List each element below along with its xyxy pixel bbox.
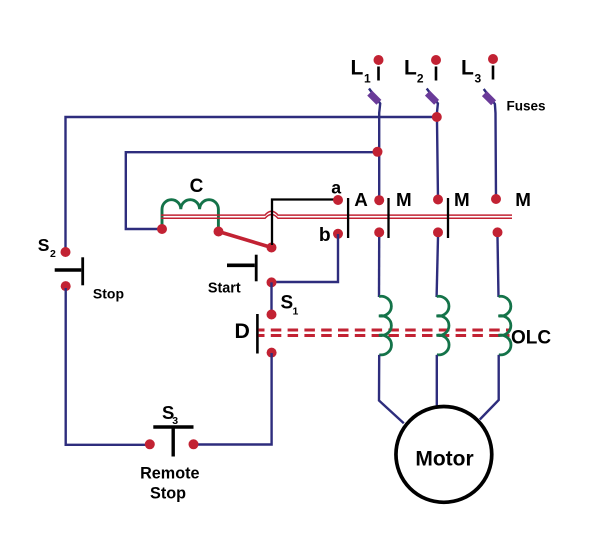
switch S3 left dot [145, 439, 155, 449]
svg-text:Stop: Stop [93, 285, 124, 301]
armature red link [219, 232, 272, 248]
label C [190, 176, 204, 197]
fuse F3 lead [484, 89, 496, 200]
label S3 [162, 402, 178, 427]
svg-text:M: M [396, 189, 412, 210]
wire node b to S1 top [272, 234, 339, 282]
svg-text:S: S [281, 293, 294, 314]
label D [235, 319, 250, 343]
wire from L1 tap to coil C left [126, 152, 378, 229]
label S2 [38, 235, 56, 260]
wire black link from node a [272, 200, 338, 246]
terminal L2 stub [435, 67, 438, 81]
label Fuses [507, 99, 546, 114]
wire S2 bottom to S3 left [66, 288, 148, 445]
switch Start actuator [227, 263, 255, 267]
mechanical crossbar upper red line [161, 211, 512, 215]
node S1 bottom dot [267, 310, 277, 320]
contact M3 bottom dot [493, 227, 503, 237]
overload coil OLC3 [499, 296, 511, 355]
contact A bar [347, 198, 349, 238]
svg-text:a: a [331, 177, 341, 197]
node coil C right dot [214, 227, 224, 237]
label A [354, 189, 368, 210]
wire branch 3 upper [498, 237, 499, 297]
switch S2 stop bar [81, 257, 84, 285]
wire from S2 top to L2 tap [66, 117, 437, 250]
svg-text:L: L [404, 57, 417, 80]
contact M1 bottom dot [374, 227, 384, 237]
label a [331, 177, 341, 197]
switch S3 stem [171, 427, 174, 457]
svg-text:Motor: Motor [415, 448, 473, 471]
wire branch 3 lower [480, 355, 499, 420]
switch S2 stop actuator [55, 268, 82, 272]
terminal L3 dot [488, 54, 498, 64]
terminal L2 dot [431, 55, 441, 65]
svg-text:2: 2 [417, 72, 424, 86]
wire branch 1 lower [379, 355, 404, 423]
fuse F1 body [367, 91, 381, 105]
wire branch 1 upper [378, 237, 381, 297]
label L2 [404, 57, 424, 86]
switch Start bar [255, 255, 258, 282]
label Stop [93, 285, 124, 301]
fuse F3 body [482, 91, 496, 105]
node b dot [333, 229, 343, 239]
fuse F2 lead [427, 89, 438, 201]
mechanical crossbar lower red line [161, 215, 512, 219]
wire branch 2 upper [437, 237, 438, 297]
wire branch 2 lower [436, 355, 438, 406]
svg-text:Remote: Remote [140, 465, 199, 483]
overload coil OLC2 [437, 296, 449, 355]
svg-text:OLC: OLC [511, 328, 551, 349]
mechanical linkage dashed upper [259, 329, 510, 332]
svg-text:Stop: Stop [150, 484, 186, 502]
contact D bar [256, 314, 259, 354]
coil C winding [162, 200, 218, 231]
contact M3 top dot [491, 194, 501, 204]
contact M1 bar [387, 198, 389, 238]
node S1 top dot [267, 277, 277, 287]
label M1 [396, 189, 412, 210]
svg-text:S: S [38, 235, 50, 255]
terminal L3 stub [492, 66, 495, 80]
armature end dot [267, 243, 277, 253]
label L1 [351, 57, 372, 86]
label S1 [281, 293, 299, 318]
switch S3 bar [153, 425, 193, 428]
contact M2 top dot [433, 195, 443, 205]
svg-text:C: C [190, 176, 204, 197]
svg-text:L: L [461, 57, 474, 80]
contact M1 top dot [374, 195, 384, 205]
svg-text:D: D [235, 319, 250, 343]
fuse F1 lead [369, 89, 380, 201]
overload coil OLC1 [379, 296, 391, 355]
node D bottom dot [267, 348, 277, 358]
terminal L1 dot [374, 55, 384, 65]
svg-text:A: A [354, 189, 368, 210]
svg-text:Start: Start [208, 281, 241, 297]
label M2 [454, 189, 470, 210]
junction L1 tap dot [373, 147, 383, 157]
svg-text:M: M [454, 189, 470, 210]
svg-text:1: 1 [293, 305, 299, 317]
label Start [208, 281, 241, 297]
svg-text:L: L [351, 57, 364, 80]
svg-text:3: 3 [172, 415, 178, 427]
svg-text:2: 2 [50, 248, 56, 260]
junction L2 tap dot [432, 112, 442, 122]
wire D bottom to S3 right [196, 353, 272, 445]
switch S3 right dot [189, 439, 199, 449]
label OLC [511, 328, 551, 349]
label M3 [515, 189, 531, 210]
node coil C left dot [157, 224, 167, 234]
svg-text:Fuses: Fuses [507, 99, 546, 114]
fuse F2 body [425, 91, 439, 105]
switch S2 stop top dot [61, 247, 71, 257]
label Remote Stop [140, 465, 199, 503]
contact M2 bar [447, 198, 449, 238]
wire S1 segment [270, 282, 272, 314]
switch S2 stop bottom dot [61, 281, 71, 291]
svg-text:3: 3 [475, 72, 482, 86]
mechanical linkage dashed lower [259, 334, 510, 337]
label L3 [461, 57, 482, 86]
terminal L1 stub [377, 67, 380, 81]
node a dot [333, 195, 343, 205]
svg-text:M: M [515, 189, 531, 210]
contact M2 bottom dot [433, 227, 443, 237]
svg-text:1: 1 [364, 72, 371, 86]
label Motor [415, 448, 473, 471]
svg-text:b: b [319, 225, 331, 246]
label b [319, 225, 331, 246]
motor M circle [396, 407, 492, 503]
